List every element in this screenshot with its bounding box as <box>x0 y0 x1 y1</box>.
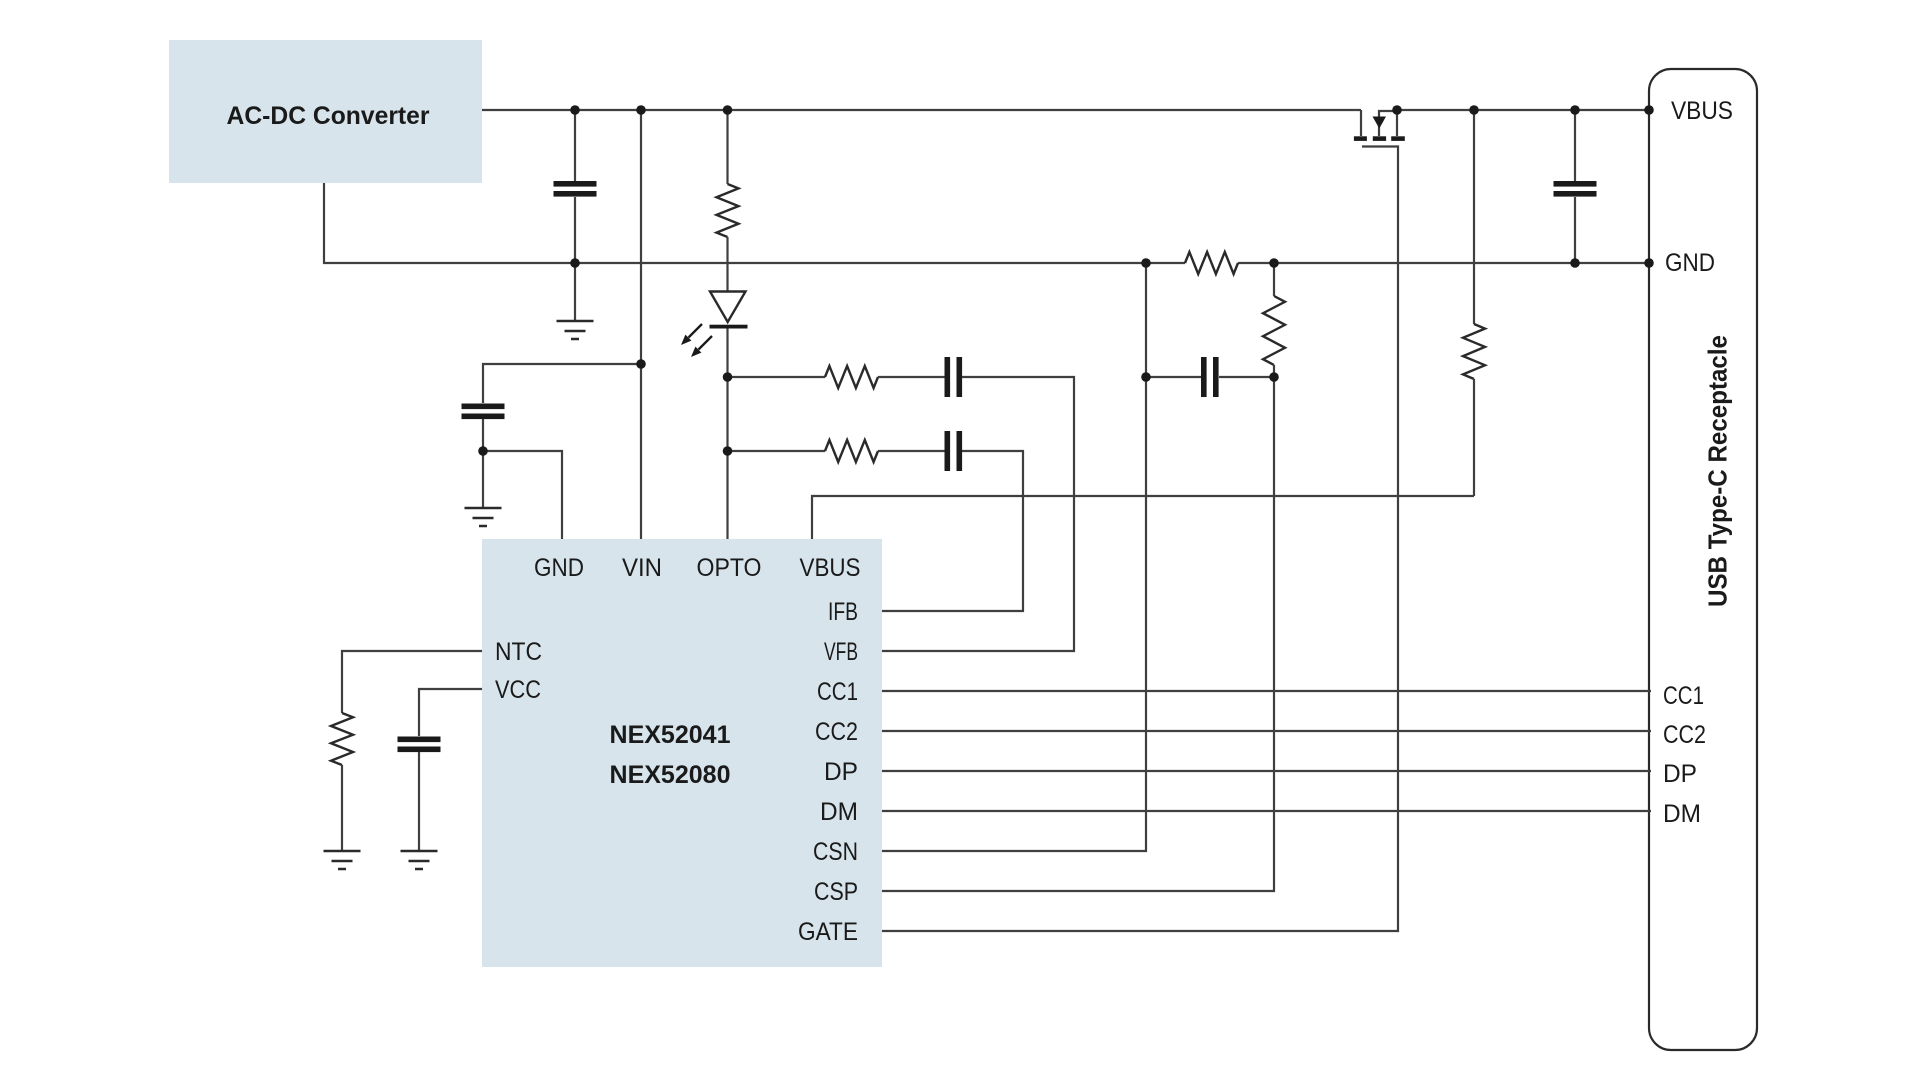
wire DM <box>882 810 1651 812</box>
svg-text:DP: DP <box>1663 760 1697 788</box>
wire C4 to IFB <box>882 451 1023 611</box>
svg-text:NTC: NTC <box>495 638 542 666</box>
ground below C7 <box>401 851 438 869</box>
svg-text:CSN: CSN <box>813 838 858 866</box>
wire VBUS top rail right <box>1397 109 1649 111</box>
svg-text:OPTO: OPTO <box>697 554 762 582</box>
wire CSP <box>882 365 1274 891</box>
wire CC1 <box>882 690 1651 692</box>
ground below C2 <box>465 508 502 526</box>
MOSFET Q1 load switch <box>1360 110 1362 136</box>
svg-text:CC1: CC1 <box>817 678 858 706</box>
svg-text:CC2: CC2 <box>815 718 858 746</box>
wire DP <box>882 770 1651 772</box>
wire VBUS pin sense line <box>812 496 1474 539</box>
svg-text:NEX52041: NEX52041 <box>610 721 731 749</box>
svg-text:VBUS: VBUS <box>1671 97 1733 125</box>
resistor R3 IFB compensation <box>728 450 826 452</box>
capacitor C4 IFB compensation <box>945 431 951 471</box>
IC U1 NEX52041/NEX52080 block <box>482 539 882 967</box>
USB Type-C Receptacle connector J1 <box>1649 69 1757 1050</box>
svg-text:GATE: GATE <box>798 918 858 946</box>
wire gate <box>882 147 1398 932</box>
capacitor C3 VFB compensation <box>945 357 951 397</box>
LED emission arrows <box>689 324 703 338</box>
svg-text:DM: DM <box>820 798 858 826</box>
LED D1 optocoupler diode <box>710 292 746 323</box>
svg-text:IFB: IFB <box>828 598 858 626</box>
wire VIN decoupling branch <box>483 364 641 403</box>
resistor R1 opto LED series <box>726 110 728 184</box>
svg-text:VIN: VIN <box>622 554 662 582</box>
resistor R6 VBUS divider <box>1473 110 1475 324</box>
svg-text:CC2: CC2 <box>1663 721 1706 749</box>
capacitor C5 sense filter <box>1146 376 1201 378</box>
wire LED to OPTO pin <box>726 329 728 540</box>
resistor R2 VFB compensation <box>728 376 826 378</box>
wire GND rail <box>324 183 1649 263</box>
capacitor C1 bulk input <box>574 110 576 181</box>
ground below C1 <box>557 321 594 339</box>
svg-text:NEX52080: NEX52080 <box>610 761 731 789</box>
resistor R4 current sense shunt <box>1185 252 1238 274</box>
resistor R7 NTC <box>342 651 482 713</box>
capacitor C6 VBUS output <box>1574 110 1576 181</box>
wire CC2 <box>882 730 1651 732</box>
wire CSN <box>882 263 1146 851</box>
capacitor C2 VIN decoupling <box>462 404 505 410</box>
svg-text:CSP: CSP <box>814 878 858 906</box>
svg-text:VFB: VFB <box>824 638 858 666</box>
svg-text:GND: GND <box>1665 249 1715 277</box>
svg-text:GND: GND <box>534 554 584 582</box>
svg-text:DM: DM <box>1663 800 1701 828</box>
svg-text:VBUS: VBUS <box>800 554 861 582</box>
AC-DC Converter block <box>169 40 482 183</box>
svg-text:AC-DC Converter: AC-DC Converter <box>227 102 430 130</box>
svg-text:CC1: CC1 <box>1663 682 1704 710</box>
wire VBUS top rail left <box>482 109 1361 111</box>
junction dots <box>570 105 580 115</box>
wire to GND pin <box>483 451 562 539</box>
ground below R7 <box>324 851 361 869</box>
capacitor C7 VCC decoupling <box>419 689 482 736</box>
resistor R5 CSP filter <box>1273 263 1275 296</box>
wire VIN <box>640 110 642 539</box>
svg-text:VCC: VCC <box>495 676 541 704</box>
wire C3 to VFB <box>882 377 1074 651</box>
svg-text:DP: DP <box>824 758 858 786</box>
svg-text:USB Type-C Receptacle: USB Type-C Receptacle <box>1703 335 1733 607</box>
